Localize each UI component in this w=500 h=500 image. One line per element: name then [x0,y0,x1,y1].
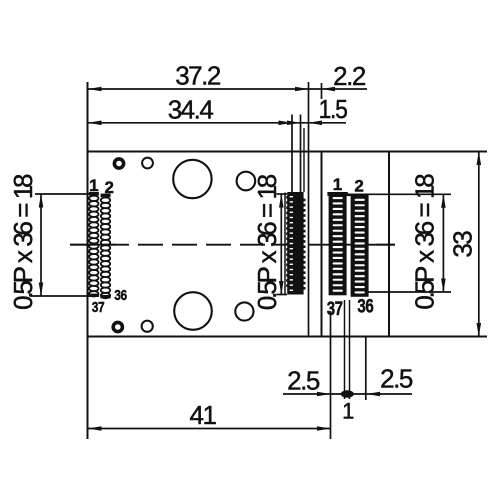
dim 2.5 left arrow [317,392,331,397]
33 bottom arrow [477,323,482,337]
ext line strip left face [291,115,293,193]
dim 2.5 right arrow [367,392,381,397]
dim 34.4 / 1.5 line [88,122,346,124]
middle contact strip (side view of contacts) [286,192,305,295]
ext line short x=304 [303,128,305,192]
right 0.5P dim line [442,194,444,292]
middle strip top ext tick [277,193,288,195]
svg-text:33: 33 [447,231,477,258]
centerline solid through right pads [358,244,395,246]
dim 37.2 right arrow [295,87,309,92]
dim 41 right arrow [317,426,331,431]
medium hole top [237,172,256,191]
left 0.5P dim line [40,194,42,296]
svg-text:37: 37 [92,299,105,316]
svg-text:2.5: 2.5 [287,366,320,396]
left 0.5P bottom arrow [39,283,44,297]
svg-text:1: 1 [89,176,98,195]
small hole bottom [142,321,153,332]
body top edge + extension to 33 dim [87,151,488,153]
mounting hole ring top-left [114,159,123,168]
dim 41 left arrow [88,426,102,431]
ext tick right 2.5 [365,337,367,401]
middle 0.5P dim line [280,194,282,295]
svg-text:41: 41 [190,400,217,430]
center dot (pin row offset) [341,390,354,397]
body right edge [388,152,390,337]
left pin column 1 (coil of contacts, pins 1..37) [89,192,99,297]
left pins top ext line [35,193,89,195]
dim 37.2 left arrow [88,87,102,92]
dim 2.5 right line [354,393,413,395]
body left edge + extension lines [87,82,89,439]
left 0.5P top arrow [39,194,44,208]
svg-text:0.5P x 36 = 18: 0.5P x 36 = 18 [252,174,282,310]
large hole top [173,160,211,198]
dim 34.4 right arrow [279,121,293,126]
ext line dot right [349,300,351,399]
right pads top ext line [369,193,452,195]
body bottom edge + extension to 33 dim [87,336,488,338]
ext tick x=321.5 [321,83,323,99]
svg-text:36: 36 [357,297,373,318]
centerline solid through left pins [70,244,116,246]
medium hole bottom [235,302,253,320]
svg-text:37.2: 37.2 [175,61,221,91]
svg-text:1: 1 [342,399,354,424]
dim 2.2 right arrow [322,87,336,92]
dim 34.4 left arrow [88,121,102,126]
mounting hole ring bottom-left [113,322,122,331]
svg-text:37: 37 [327,299,343,320]
left pin column 2 (coil of contacts, pins 2..36) [101,194,111,299]
ext line strip right face [300,115,302,193]
large hole bottom [174,292,212,330]
dim 1.5 right arrow [309,121,323,126]
svg-text:2: 2 [105,178,114,197]
ext line x=308.5 edge [308,82,310,337]
dim 37.2 / 2.2 line [88,88,367,90]
svg-text:34.4: 34.4 [168,95,214,125]
left pins bottom ext line [30,295,89,297]
middle contact strip outline line [284,193,286,295]
dim 1.5 left arrow [287,121,301,126]
right pads bottom ext line [369,291,452,293]
centerline (dashed) [70,244,395,246]
dim 41 line [88,428,331,430]
right pad column 1 (pins 1..37) [327,192,350,295]
svg-text:1.5: 1.5 [319,94,348,124]
33 dim line [478,152,480,337]
svg-text:1: 1 [333,175,342,194]
svg-text:36: 36 [114,287,127,304]
svg-text:2.5: 2.5 [380,364,413,394]
svg-text:0.5P x 36 = 18: 0.5P x 36 = 18 [410,174,440,310]
ext line dot left [344,300,346,399]
body divider line [321,152,323,337]
right pad column 2 (pins 2..36) [351,194,369,297]
svg-text:2.2: 2.2 [333,61,366,91]
33 top arrow [477,152,482,166]
svg-text:2: 2 [354,176,363,195]
middle 0.5P top arrow [279,194,284,208]
right 0.5P top arrow [441,194,446,208]
middle strip bottom ext tick [277,294,288,296]
ext line pin1 pad left edge [330,311,332,439]
svg-text:0.5P x 36 = 18: 0.5P x 36 = 18 [8,174,38,310]
dim 2.5 left line [283,393,342,395]
middle 0.5P bottom arrow [279,281,284,295]
small hole top [142,158,153,169]
right 0.5P bottom arrow [441,279,446,293]
